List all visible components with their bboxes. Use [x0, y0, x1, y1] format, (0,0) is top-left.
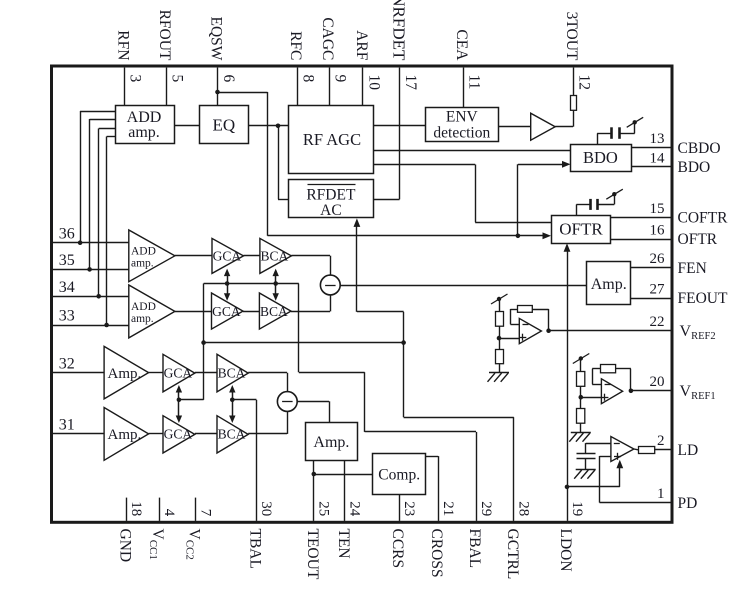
junction VREF2 divider: [497, 336, 502, 341]
resistor on 3TOUT: [571, 96, 577, 111]
svg-text:RFOUT: RFOUT: [156, 10, 173, 61]
svg-text:OFTR: OFTR: [678, 231, 718, 248]
svg-text:LD: LD: [678, 442, 699, 459]
svg-text:4: 4: [161, 509, 177, 517]
svg-text:21: 21: [440, 501, 456, 516]
svg-text:EQ: EQ: [212, 116, 235, 135]
svg-text:31: 31: [59, 417, 75, 434]
svg-text:6: 6: [220, 75, 237, 83]
svg-text:PD: PD: [678, 495, 698, 512]
pin 34 lead: [53, 296, 129, 298]
pin 6 EQSW lead: [217, 68, 219, 106]
svg-text:7: 7: [197, 509, 213, 517]
wire into OFTR input: [475, 222, 551, 224]
pin 1 lead PD: [600, 502, 671, 504]
block Comp: [373, 454, 426, 495]
svg-text:CBDO: CBDO: [678, 140, 721, 157]
svg-text:ARF: ARF: [353, 30, 370, 61]
resistor VREF2 upper: [496, 312, 504, 327]
svg-text:27: 27: [650, 281, 666, 297]
node EQSW branch: [215, 90, 220, 95]
svg-text:BCA: BCA: [261, 248, 289, 263]
wire pin 35 to ADD amp input: [87, 267, 92, 272]
wire to + input: [581, 397, 602, 399]
pin 22 lead VREF2: [549, 330, 671, 332]
ground LD cap: [574, 470, 596, 479]
junction VREF2 output: [546, 328, 551, 333]
wire into OFTR: [518, 235, 543, 237]
junction LDON: [565, 485, 570, 490]
svg-text:22: 22: [650, 314, 665, 330]
junction BCA arrow / TBAL: [230, 398, 235, 403]
wire RF AGC to ENV detection: [373, 125, 426, 127]
pin 29 lead FBAL: [476, 432, 478, 521]
svg-text:AC: AC: [320, 202, 342, 219]
pin 18 lead GND: [126, 498, 128, 521]
svg-text:1: 1: [657, 486, 665, 502]
svg-text:RFN: RFN: [114, 30, 131, 60]
pin 36 lead: [53, 242, 129, 244]
svg-text:OFTR: OFTR: [559, 219, 603, 238]
block Amp (FE): [587, 262, 631, 305]
svg-text:9: 9: [332, 75, 349, 83]
svg-text:detection: detection: [433, 125, 490, 142]
junction TEOUT/Comp: [312, 472, 317, 477]
svg-text:23: 23: [401, 501, 417, 516]
svg-text:ADD: ADD: [131, 301, 156, 313]
pin 23 lead CCRS: [399, 495, 401, 521]
pin 14 lead BDO: [631, 166, 671, 168]
junction EQSW/OFTR: [516, 234, 521, 239]
pin 21 lead CROSS: [438, 456, 440, 521]
wire Comp to pin 21: [426, 456, 438, 458]
junction GCA arrow: [225, 281, 230, 286]
wire ENV to buffer: [498, 126, 531, 128]
amplifier Amp A4: [104, 408, 149, 461]
junction VREF1 output: [629, 389, 634, 394]
wire A1 to GCA1: [175, 255, 212, 257]
svg-text:15: 15: [650, 201, 665, 217]
svg-text:TEN: TEN: [335, 529, 352, 559]
svg-text:BCA: BCA: [218, 427, 246, 442]
pin 7 lead VCC2: [195, 498, 197, 521]
svg-text:32: 32: [59, 356, 75, 373]
svg-text:BDO: BDO: [583, 148, 618, 167]
svg-text:amp.: amp.: [131, 257, 154, 269]
wire BCA2 to subtractor: [291, 311, 330, 313]
wire into RFDET AC left: [278, 199, 289, 201]
op-amp triangle VREF1: [601, 379, 622, 404]
junction GCTRL left: [201, 340, 206, 345]
amplifier ADD amp A2: [129, 285, 175, 338]
pin 33 lead: [53, 325, 129, 327]
wire into BDO: [518, 164, 562, 166]
svg-text:CAGC: CAGC: [319, 17, 336, 60]
wire buffer to 3TOUT: [555, 126, 573, 128]
wire EQSW to OFTR: [268, 235, 518, 237]
pin 16 lead OFTR: [611, 239, 671, 241]
svg-text:TBAL: TBAL: [246, 529, 263, 569]
wire to Comp: [314, 474, 373, 476]
resistor VREF2 lower: [496, 350, 504, 364]
wire pin 33 to ADD amp input: [104, 323, 109, 328]
subtractor S2: [277, 392, 297, 412]
wire FBAL vertical: [298, 284, 300, 373]
svg-text:GCTRL: GCTRL: [504, 529, 521, 580]
svg-text:CROSS: CROSS: [428, 529, 445, 578]
svg-text:34: 34: [59, 279, 75, 296]
pin 20 lead VREF1: [631, 390, 671, 392]
svg-text:16: 16: [650, 222, 666, 238]
wire BCA4 to subtractor S2: [248, 433, 287, 435]
svg-text:FBAL: FBAL: [466, 529, 483, 569]
svg-text:10: 10: [365, 75, 382, 91]
svg-text:GCA: GCA: [164, 427, 193, 442]
svg-text:CCRS: CCRS: [389, 529, 406, 569]
svg-text:RF AGC: RF AGC: [303, 130, 361, 149]
resistor VREF1 lower: [577, 409, 585, 424]
wire FBAL horizontal: [299, 372, 365, 374]
pin 4 lead VCC1: [159, 498, 161, 521]
svg-text:CEA: CEA: [453, 29, 470, 61]
svg-text:13: 13: [650, 131, 665, 147]
svg-text:GCA: GCA: [212, 304, 241, 319]
pin 15 lead COFTR: [611, 217, 671, 219]
wire pin 34 to ADD amp input: [96, 294, 101, 299]
wire FBAL to pin 29: [365, 431, 476, 433]
pin 31 lead: [53, 433, 104, 435]
trimmer on VREF1 divider: [579, 356, 583, 360]
svg-text:FEOUT: FEOUT: [678, 290, 728, 307]
wire linking gain arrows: [204, 283, 299, 285]
wire BCA3 to subtractor S2: [248, 372, 287, 374]
svg-text:Comp.: Comp.: [378, 467, 420, 484]
wire control vertical left: [203, 284, 205, 400]
pin 12 3TOUT lead: [573, 68, 575, 96]
wire subtractor S1 to Amp: [340, 285, 587, 287]
svg-text:amp.: amp.: [131, 313, 154, 325]
svg-text:RFDET: RFDET: [306, 186, 356, 203]
junction EQ output: [276, 124, 281, 129]
svg-text:35: 35: [59, 252, 75, 269]
wire FBAL down: [364, 372, 366, 432]
block RF AGC: [289, 106, 374, 174]
amplifier GCA2: [212, 293, 244, 329]
svg-text:BCA: BCA: [218, 365, 246, 380]
svg-text:ENV: ENV: [446, 109, 479, 126]
svg-text:26: 26: [650, 251, 666, 267]
wire RF AGC output 3: [373, 164, 475, 166]
block OFTR: [552, 216, 611, 244]
pin 9 CAGC lead: [329, 68, 331, 106]
svg-text:11: 11: [465, 75, 482, 90]
svg-text:33: 33: [59, 308, 75, 325]
wire GCTRL to RFDET AC with arrow: [356, 227, 358, 312]
wire pin 36 to ADD amp input: [78, 240, 83, 245]
svg-text:2: 2: [657, 433, 665, 449]
pin 13 lead CBDO: [631, 147, 671, 149]
amplifier ADD amp A1: [129, 230, 175, 282]
overline on RFDET: [308, 184, 356, 186]
pin 17 NRFDET lead: [399, 68, 401, 200]
GCA1/GCA2 coupling arrow: [227, 275, 229, 295]
pin 27 lead FEOUT: [631, 298, 671, 300]
wire RFDET AC right to pin17 lead: [373, 199, 399, 201]
amplifier BCA2: [259, 293, 291, 329]
wire GCA2 to BCA2: [243, 311, 259, 313]
resistor VREF1 upper: [577, 372, 585, 387]
svg-text:Amp.: Amp.: [313, 434, 349, 451]
svg-text:COFTR: COFTR: [678, 210, 729, 227]
amplifier Amp A3: [104, 346, 149, 399]
svg-text:FEN: FEN: [678, 260, 707, 277]
wire EQ to RF AGC: [248, 125, 288, 127]
block ADD amp U1: [116, 106, 175, 144]
svg-text:14: 14: [650, 150, 666, 166]
wire to + input: [499, 338, 519, 340]
wire ADD amp to EQ: [174, 125, 200, 127]
wire A4 to GCA4: [149, 433, 163, 435]
pin 32 lead: [53, 372, 104, 374]
svg-text:25: 25: [316, 501, 332, 516]
wire BCA1 to subtractor: [291, 255, 330, 257]
svg-text:RFC: RFC: [287, 31, 304, 60]
svg-text:18: 18: [128, 501, 144, 516]
BCA1/BCA2 coupling arrow: [275, 275, 277, 295]
block Amp (TE): [306, 423, 358, 461]
wire to resistor: [573, 110, 575, 127]
svg-text:BDO: BDO: [678, 159, 711, 176]
wire EQSW down: [267, 92, 269, 236]
subtractor S1: [320, 275, 340, 295]
svg-text:20: 20: [650, 374, 665, 390]
block ENV detection: [426, 108, 499, 142]
block BDO: [571, 145, 632, 172]
junction BCA arrow: [273, 281, 278, 286]
svg-text:3TOUT: 3TOUT: [563, 12, 580, 61]
pin 19 lead LDON with arrow to OFTR: [567, 251, 569, 521]
svg-text:TEOUT: TEOUT: [304, 529, 321, 580]
wire down to OFTR: [475, 165, 477, 223]
junction GCA arrow / control: [177, 398, 182, 403]
wire + input: [600, 456, 611, 458]
svg-text:Amp.: Amp.: [591, 276, 627, 293]
op-amp triangle VREF2: [519, 318, 541, 343]
svg-text:36: 36: [59, 225, 75, 242]
amplifier BCA4: [217, 416, 248, 453]
wire PD to + input: [599, 456, 601, 503]
pin 30 lead TBAL: [256, 400, 258, 521]
pin 8 RFC lead: [297, 68, 299, 106]
capacitor on LD input: [577, 453, 596, 455]
amplifier GCA1: [212, 238, 244, 273]
wire A3 to GCA3: [149, 372, 163, 374]
svg-text:EQSW: EQSW: [208, 16, 225, 60]
junction GCTRL: [401, 340, 406, 345]
svg-text:28: 28: [516, 501, 532, 516]
svg-text:Amp.: Amp.: [108, 366, 142, 382]
svg-text:12: 12: [575, 75, 592, 91]
svg-text:3: 3: [127, 75, 144, 83]
pin 35 lead: [53, 269, 129, 271]
wire LD output: [634, 448, 638, 451]
ground VREF2: [488, 373, 510, 382]
wire GCTRL horizontal: [204, 342, 404, 344]
wire down to RFDET AC: [278, 126, 280, 200]
svg-text:19: 19: [569, 501, 585, 516]
block RFDET AC: [289, 180, 374, 218]
wire up to BDO: [517, 164, 519, 236]
pin 28 lead GCTRL: [513, 417, 515, 521]
wire GCA3 to BCA3: [195, 372, 217, 374]
resistor on LD output: [639, 447, 655, 454]
block EQ: [200, 106, 249, 144]
arrow into LD comparator: [619, 467, 621, 487]
amplifier GCA4: [163, 416, 195, 453]
amplifier BCA3: [217, 354, 248, 392]
BCA3/BCA4 coupling arrow: [232, 391, 234, 417]
wire RF AGC to BDO: [373, 150, 570, 152]
IC outline border: [52, 66, 673, 522]
svg-text:BCA: BCA: [260, 304, 288, 319]
wire to pin 28: [404, 417, 514, 419]
svg-text:29: 29: [478, 501, 494, 516]
svg-text:GCA: GCA: [164, 365, 193, 380]
svg-text:NRFDET: NRFDET: [390, 0, 409, 61]
wire A2 to GCA2: [175, 311, 212, 313]
junction VREF1 divider: [579, 395, 584, 400]
wire to lower GCA arrow: [179, 399, 204, 401]
pin 10 ARF lead: [362, 68, 364, 106]
svg-text:amp.: amp.: [128, 124, 160, 141]
capacitor with trimmer above OFTR: [576, 204, 578, 215]
svg-text:Amp.: Amp.: [108, 427, 142, 443]
comparator triangle LD: [611, 437, 634, 462]
pin 2 lead LD: [654, 449, 670, 451]
svg-text:GND: GND: [116, 529, 133, 563]
svg-text:5: 5: [168, 75, 185, 83]
capacitor with trimmer above BDO: [597, 133, 599, 144]
svg-text:ADD: ADD: [131, 246, 156, 258]
wire GCTRL vertical: [403, 312, 405, 417]
pin 5 RFOUT lead: [166, 68, 168, 106]
GCA3/GCA4 coupling arrow: [178, 391, 180, 417]
wire LDON to LD comparator: [567, 486, 620, 488]
svg-text:LDON: LDON: [557, 529, 574, 572]
pin 25 lead TEOUT: [313, 461, 315, 521]
ground VREF1: [569, 433, 591, 442]
feedback resistor VREF2: [548, 309, 550, 331]
pin 26 lead FEN: [631, 267, 671, 269]
pin 11 CEA lead: [463, 68, 465, 108]
svg-text:17: 17: [402, 75, 419, 91]
pin 24 lead TEN: [344, 461, 346, 521]
amplifier GCA3: [163, 354, 195, 392]
svg-text:GCA: GCA: [213, 248, 242, 263]
buffer amplifier triangle: [531, 113, 556, 140]
wire GCA1 to BCA1: [244, 255, 260, 257]
wire into Amp block: [329, 401, 331, 422]
amplifier BCA1: [260, 238, 292, 273]
svg-text:24: 24: [347, 501, 363, 517]
pin 3 RFN lead: [124, 68, 126, 106]
wire GCA4 to BCA4: [195, 433, 217, 435]
wire - input: [586, 443, 611, 445]
svg-text:8: 8: [299, 75, 316, 83]
feedback resistor VREF1: [630, 369, 632, 391]
trimmer on VREF2 divider: [497, 297, 501, 301]
svg-text:30: 30: [258, 501, 274, 516]
wire S2 output: [297, 401, 329, 403]
wire TBAL to BCA arrow: [232, 399, 256, 401]
